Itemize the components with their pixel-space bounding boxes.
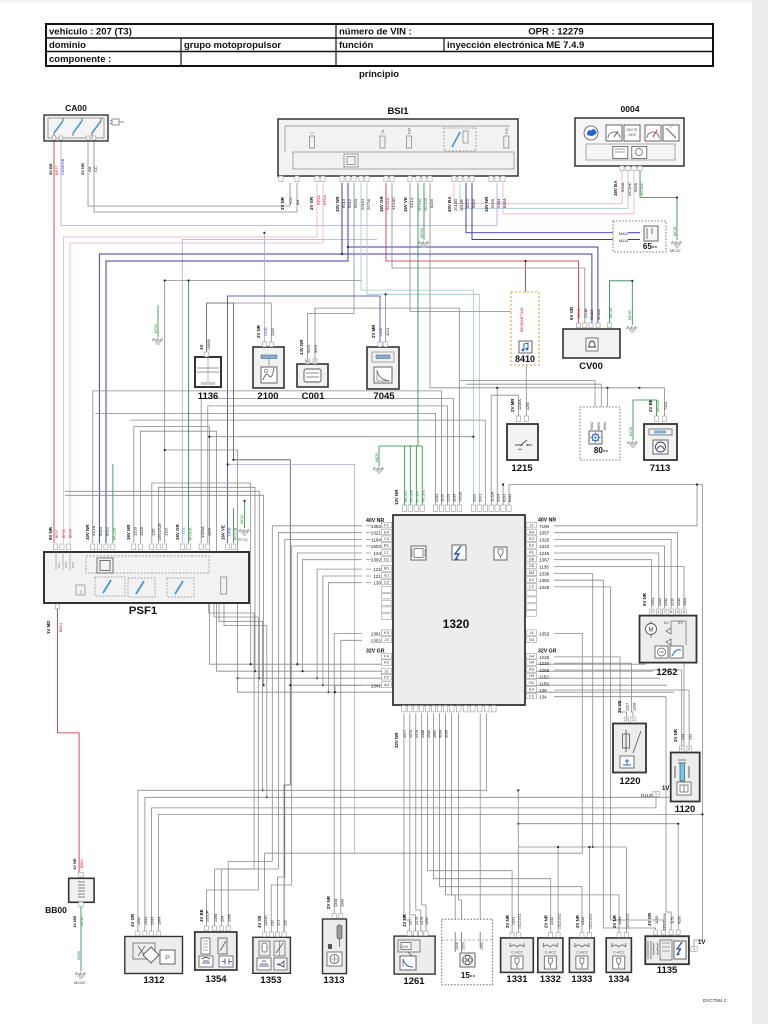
svg-text:9005: 9005 [490, 198, 495, 208]
svg-text:1329: 1329 [539, 585, 550, 590]
svg-text:1310: 1310 [539, 544, 550, 549]
wire 1357 to 1262 [554, 533, 678, 609]
wire C001 to ECU 2026 [315, 308, 459, 505]
svg-text:1350: 1350 [137, 917, 141, 925]
wire 1215 p1 to ECU [491, 395, 518, 505]
svg-text:1164: 1164 [371, 537, 381, 542]
wire lavender mid [228, 464, 355, 853]
svg-text:A4: A4 [384, 682, 390, 687]
svg-text:134: 134 [539, 695, 547, 700]
svg-text:H4: H4 [529, 660, 535, 665]
svg-text:132: 132 [270, 920, 274, 926]
wire BE11 red BSI1 to CV00 [386, 183, 579, 323]
svg-text:1331: 1331 [511, 917, 515, 925]
wire CA5KGB lavender to BSI1 [61, 141, 497, 226]
svg-text:K2: K2 [384, 660, 390, 665]
wire 1329 to 1135 p2 [554, 587, 664, 931]
svg-text:MC30I: MC30I [404, 491, 408, 502]
wire MC200 green to ground [423, 183, 425, 240]
ground MC0G [418, 241, 429, 247]
svg-text:dominio: dominio [49, 40, 86, 51]
svg-text:4V GR: 4V GR [130, 913, 135, 927]
junction inj supply [517, 789, 519, 791]
svg-text:C01: C01 [182, 527, 186, 534]
svg-text:F4: F4 [384, 654, 389, 659]
svg-text:MT2UA: MT2UA [189, 527, 193, 540]
svg-text:1313: 1313 [323, 975, 344, 986]
svg-text:40V NR: 40V NR [366, 518, 384, 524]
0004 gauge icons [584, 126, 598, 140]
svg-text:MT30F: MT30F [416, 490, 420, 502]
component PSF1 [44, 552, 249, 603]
wire inj4 sig [446, 714, 620, 938]
component 0004 [575, 118, 684, 166]
wire CMD blue 7045 to PSF1 [228, 296, 380, 464]
svg-text:C4: C4 [384, 536, 390, 541]
wire 1503 to 1353 p2 [271, 546, 362, 932]
svg-text:9003: 9003 [314, 345, 318, 353]
wire PSF1 out to 1354 p1 [207, 603, 259, 926]
svg-text:PSF1: PSF1 [129, 605, 158, 617]
svg-text:MC37: MC37 [670, 248, 681, 253]
svg-text:1331: 1331 [144, 917, 148, 925]
svg-text:1V NE: 1V NE [72, 858, 77, 870]
svg-text:2V GR: 2V GR [309, 196, 314, 210]
svg-text:MC200: MC200 [423, 197, 428, 211]
ground MC10 [239, 529, 250, 535]
svg-text:L1: L1 [384, 550, 389, 555]
component 1136 [195, 357, 221, 387]
svg-text:130: 130 [373, 581, 381, 586]
svg-text:1208: 1208 [633, 703, 637, 711]
svg-text:F4: F4 [79, 590, 83, 594]
svg-text:1135: 1135 [657, 965, 678, 976]
wire 1321 to 1354 p2 [215, 533, 362, 926]
CV00 bell icon [589, 341, 595, 347]
svg-text:122: 122 [373, 567, 381, 572]
svg-text:F1: F1 [384, 522, 389, 527]
junction 1104 [385, 293, 387, 295]
component 1331 [501, 938, 534, 973]
wire 122 down [317, 569, 362, 678]
wire PSF1 out 4 [224, 603, 267, 797]
svg-text:X064: X064 [496, 198, 501, 208]
svg-text:1334: 1334 [608, 974, 630, 985]
svg-text:40V BA: 40V BA [447, 196, 452, 212]
ECU chip icon [411, 546, 426, 560]
svg-text:4V NR: 4V NR [402, 913, 407, 927]
ground MT01 [152, 338, 163, 344]
junction [254, 670, 256, 672]
svg-text:MC10: MC10 [240, 515, 244, 524]
svg-text:115/V1/S1R: 115/V1/S1R [158, 523, 162, 541]
component 15-- [442, 919, 493, 985]
component 65-- [613, 221, 666, 252]
wire MT2UA green [188, 281, 190, 544]
svg-text:1352: 1352 [371, 638, 382, 643]
svg-text:1354: 1354 [205, 974, 227, 985]
svg-text:16V GR: 16V GR [175, 524, 180, 540]
junction Z4 [289, 684, 291, 686]
component 1220 [613, 724, 646, 773]
junction MC10 [244, 500, 246, 502]
svg-text:XC4B: XC4B [584, 308, 588, 318]
svg-text:2V NR: 2V NR [280, 196, 285, 210]
wire 1352 to 1313 [341, 640, 362, 914]
svg-text:MC10B: MC10B [234, 527, 238, 540]
component 2100 [253, 347, 284, 388]
ECU bolt icon [452, 545, 466, 560]
junction [588, 846, 590, 848]
svg-text:8190: 8190 [429, 198, 434, 208]
svg-text:2100: 2100 [257, 391, 278, 402]
component CV00 [563, 329, 620, 358]
svg-text:1159: 1159 [539, 681, 549, 686]
svg-text:1184: 1184 [453, 494, 457, 502]
svg-text:9013A: 9013A [590, 309, 594, 320]
BSI1 relay box [444, 128, 476, 151]
wire PSF1 out to 1354 p3 [209, 603, 254, 926]
svg-text:134: 134 [221, 916, 225, 922]
wire 1320 to 1262 [554, 539, 671, 608]
component 1215 [507, 424, 538, 460]
junction [258, 677, 260, 679]
svg-text:1324V: 1324V [264, 915, 268, 926]
svg-text:3V BE: 3V BE [48, 163, 53, 175]
wire inj2 supply [557, 847, 559, 937]
wire 80-- feed 2 [466, 384, 601, 436]
wire 1382 to 1135 p1 [554, 580, 656, 931]
svg-text:B00A: B00A [502, 198, 507, 208]
svg-text:4V VE: 4V VE [257, 915, 262, 928]
junction 7113 feed [638, 387, 640, 389]
wire elbow 4 [65, 495, 264, 685]
junction CMD [227, 463, 229, 465]
wire 15-- feed 2 [459, 714, 462, 933]
svg-text:1660: 1660 [433, 730, 437, 738]
junction Z3 [236, 677, 238, 679]
svg-text:9064: 9064 [439, 730, 443, 738]
svg-text:MC20B: MC20B [113, 527, 117, 540]
wire M000 green [80, 902, 82, 971]
svg-text:1V: 1V [662, 786, 669, 792]
wire M113 blue to 65-- [472, 183, 613, 240]
ground MC37 [671, 241, 682, 247]
svg-text:6V NR: 6V NR [642, 592, 647, 606]
svg-text:H1: H1 [529, 680, 535, 685]
wire ECU top 8193 [502, 485, 504, 506]
80 gear icon [592, 434, 598, 440]
junction 9012 [347, 246, 349, 248]
wire inj1 sig [428, 714, 512, 933]
component 1333 [569, 938, 594, 973]
wire 9013 blue [99, 183, 342, 543]
component 1354 [195, 932, 237, 970]
wire 1261 p2 [410, 714, 416, 932]
svg-text:7045: 7045 [373, 391, 395, 402]
junction [301, 670, 303, 672]
svg-text:9002: 9002 [590, 422, 594, 430]
wire green bus [379, 445, 422, 447]
svg-text:1302: 1302 [371, 558, 382, 563]
junction [250, 663, 252, 665]
svg-text:1320: 1320 [139, 526, 144, 536]
wire 1104 from 7045 [385, 294, 387, 342]
svg-text:132: 132 [689, 734, 693, 740]
wire 1361 to 1313 [334, 633, 362, 914]
svg-text:MC2K: MC2K [609, 307, 613, 318]
wire 80-- feed 3 [607, 388, 609, 436]
svg-text:1344: 1344 [334, 899, 338, 907]
svg-text:1320: 1320 [443, 617, 470, 631]
svg-text:C-AC2: C-AC2 [576, 951, 587, 955]
wire M112 blue to 65-- [466, 183, 613, 233]
svg-text:1382: 1382 [539, 578, 550, 583]
svg-text:8V NR: 8V NR [48, 526, 53, 540]
ground MC15 [627, 441, 638, 447]
svg-text:1364: 1364 [158, 917, 162, 925]
svg-text:1321: 1321 [371, 531, 382, 536]
svg-text:2071K: 2071K [366, 198, 371, 210]
svg-text:1215: 1215 [511, 463, 533, 474]
svg-text:CC: CC [93, 166, 98, 172]
svg-text:1393: 1393 [371, 524, 382, 529]
junction [316, 677, 318, 679]
svg-text:8193: 8193 [502, 494, 506, 502]
svg-text:1333: 1333 [581, 917, 585, 925]
svg-text:+CC: +CC [288, 197, 293, 205]
svg-text:E4: E4 [529, 687, 535, 692]
svg-text:9010: 9010 [98, 526, 103, 536]
svg-text:número de VIN :: número de VIN : [339, 27, 412, 38]
wire 1312 p1 long [138, 714, 487, 932]
component 8410 [511, 292, 539, 365]
junction inj supply feed [592, 846, 594, 848]
wire ECU green top 1 [404, 446, 406, 505]
BSI1 fuses [310, 136, 315, 148]
BSI1 inner structure [293, 152, 514, 169]
svg-text:BF07: BF07 [55, 529, 59, 538]
svg-text:G4: G4 [529, 654, 535, 659]
component 1332 [538, 938, 563, 973]
svg-text:F1C: F1C [505, 127, 509, 134]
header table [46, 24, 713, 66]
svg-text:132UR: 132UR [206, 910, 210, 922]
svg-text:2V BE: 2V BE [648, 399, 653, 412]
svg-text:A4: A4 [529, 529, 535, 534]
ECU injector icon [494, 547, 507, 560]
svg-text:9012: 9012 [347, 198, 352, 208]
svg-text:8004: 8004 [603, 422, 607, 430]
svg-text:10V NR: 10V NR [85, 524, 90, 540]
svg-text:1151: 1151 [670, 916, 674, 924]
svg-text:B1: B1 [384, 543, 390, 548]
svg-text:G8: G8 [529, 563, 535, 568]
svg-text:CMD: CMD [228, 527, 232, 536]
svg-text:8410: 8410 [515, 354, 535, 364]
svg-text:1334: 1334 [618, 917, 622, 925]
svg-text:9072: 9072 [465, 198, 470, 208]
svg-text:1240: 1240 [677, 598, 681, 606]
wire 1261 p3 [416, 714, 421, 932]
wire cross band [209, 436, 473, 438]
svg-text:1V MD: 1V MD [72, 916, 77, 928]
wire ECU green top 4 [421, 446, 423, 505]
wire inj supply riser [517, 790, 519, 847]
svg-text:1357: 1357 [539, 531, 550, 536]
svg-text:2012B: 2012B [459, 199, 464, 211]
svg-text:1207: 1207 [626, 703, 630, 711]
svg-text:MT2: MT2 [64, 562, 68, 568]
svg-text:4V BE: 4V BE [199, 909, 204, 922]
wire 1135 p4 riser [677, 824, 679, 931]
svg-text:15--: 15-- [461, 971, 476, 980]
svg-text:1325: 1325 [683, 598, 687, 606]
component 7113 [644, 424, 677, 460]
svg-text:2V NR: 2V NR [505, 914, 510, 928]
svg-text:XC2HC: XC2HC [627, 182, 632, 196]
junction [517, 823, 519, 825]
wire bus Z3 [238, 677, 661, 679]
svg-text:1129: 1129 [441, 494, 445, 502]
wire 115I elbow [152, 483, 251, 664]
svg-text:12V NR: 12V NR [394, 489, 399, 505]
wire 2100 pin2 [234, 303, 272, 342]
svg-text:A3: A3 [529, 667, 535, 672]
svg-text:1320: 1320 [539, 537, 550, 542]
junction [557, 846, 559, 848]
wire ECU to 1135 1V [509, 485, 703, 948]
svg-text:MC1B: MC1B [628, 310, 632, 320]
svg-text:40V NR: 40V NR [335, 196, 340, 212]
svg-text:1210: 1210 [670, 598, 674, 606]
junction MC36 [676, 196, 678, 198]
junction [263, 684, 265, 686]
junction [677, 823, 679, 825]
svg-text:2V NR: 2V NR [575, 914, 580, 928]
svg-text:1559: 1559 [462, 942, 466, 950]
wire ECU green top 3 [415, 446, 417, 505]
svg-text:F3A: F3A [407, 127, 411, 134]
svg-text:1V: 1V [698, 940, 705, 946]
wire 130 down [329, 583, 363, 693]
wire 1338 to inj supply [554, 574, 593, 848]
svg-text:C001: C001 [302, 391, 325, 402]
svg-text:1640: 1640 [427, 730, 431, 738]
wire ECU green top 2 [409, 446, 411, 505]
svg-text:XC16C: XC16C [391, 197, 396, 210]
svg-text:1390: 1390 [425, 917, 429, 925]
svg-text:F3: F3 [529, 693, 534, 698]
svg-text:1379: 1379 [415, 917, 419, 925]
wire 1350A to ECU 1184 [201, 398, 453, 543]
svg-text:K3: K3 [384, 630, 390, 635]
svg-text:E4: E4 [384, 529, 390, 534]
component 1353 [253, 937, 291, 973]
15 fan icon [463, 955, 473, 965]
svg-text:80--: 80-- [594, 446, 609, 455]
svg-text:121: 121 [373, 574, 381, 579]
svg-text:BF07: BF07 [54, 165, 59, 175]
wire 1135 to 1262 [554, 567, 684, 609]
junction right bus [701, 813, 703, 815]
wire CC CA00 to BSI1 [94, 141, 297, 212]
svg-text:134: 134 [681, 734, 685, 740]
svg-text:115I: 115I [151, 528, 156, 536]
wire 134 to 1135 p3 [554, 697, 671, 931]
svg-text:9013: 9013 [341, 198, 346, 208]
svg-text:9104: 9104 [496, 494, 500, 502]
svg-text:1211/1212: 1211/1212 [589, 913, 593, 929]
wire PSF1 out 3 [219, 603, 263, 790]
svg-text:BF06: BF06 [316, 195, 321, 205]
component 1120 [671, 753, 700, 802]
wire 1320 bus Z2 [140, 431, 653, 671]
svg-text:2V NR: 2V NR [256, 324, 261, 338]
svg-text:9012: 9012 [105, 526, 110, 536]
svg-text:MT4: MT4 [71, 562, 75, 568]
svg-text:2V MR: 2V MR [371, 324, 376, 338]
svg-text:NEUTR: NEUTR [627, 128, 639, 132]
svg-text:138: 138 [539, 688, 547, 693]
CA00 key icon [110, 119, 124, 125]
svg-text:grupo motopropulsor: grupo motopropulsor [184, 40, 281, 51]
PSF1 inner structure [86, 556, 209, 573]
wire 1312 p3 to D1120 [152, 797, 657, 931]
svg-text:124: 124 [373, 551, 381, 556]
wire XC16 to ECU 1129 [93, 391, 442, 543]
svg-text:BF0A: BF0A [322, 195, 327, 205]
svg-text:M1: M1 [384, 566, 390, 571]
svg-text:1211/1212: 1211/1212 [626, 913, 630, 929]
svg-text:10V NR: 10V NR [484, 196, 489, 212]
junction [322, 684, 324, 686]
svg-text:15/N: 15/N [400, 944, 409, 949]
svg-text:1211/1212: 1211/1212 [557, 913, 561, 929]
junction battery node [232, 459, 234, 461]
component C001 [297, 364, 328, 387]
wire battery plus chain [207, 303, 291, 932]
svg-text:principio: principio [359, 69, 399, 80]
svg-text:MC30E: MC30E [421, 489, 425, 502]
svg-text:1377: 1377 [403, 730, 407, 738]
wire 132I riser up [165, 281, 361, 544]
svg-text:121: 121 [277, 920, 281, 926]
svg-text:XC16: XC16 [91, 525, 96, 536]
svg-text:1135: 1135 [539, 565, 549, 570]
junction MT2UA [188, 279, 190, 281]
component 1312 [125, 937, 183, 974]
wire BF07 CA00 to PSF1 [53, 141, 55, 543]
svg-text:1334: 1334 [651, 598, 655, 606]
svg-text:1293: 1293 [435, 494, 439, 502]
wire BB14 red PSF1 to BB00 [58, 609, 80, 872]
junction [296, 663, 298, 665]
svg-text:6V GR: 6V GR [569, 306, 574, 320]
wire 900A pink to 0004 [454, 171, 622, 204]
svg-text:7113: 7113 [664, 402, 668, 410]
wire 132I bus Z5 [165, 450, 674, 692]
svg-text:PC10: PC10 [238, 538, 248, 542]
svg-text:1120: 1120 [675, 804, 696, 815]
wire 9005 pink to 0004 [503, 171, 634, 214]
wire red antenna into 8410 [525, 261, 527, 335]
svg-text:P: P [165, 955, 170, 962]
svg-text:C-AC2: C-AC2 [511, 951, 522, 955]
wire MC15 green [633, 400, 657, 440]
wire ME20 stub [378, 446, 380, 466]
ground ME20 [373, 467, 384, 473]
